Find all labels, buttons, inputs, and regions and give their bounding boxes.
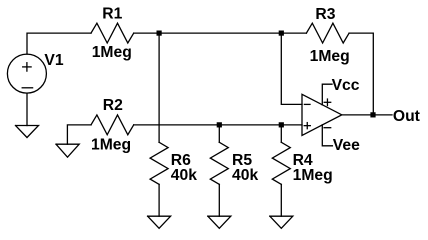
svg-text:1Meg: 1Meg xyxy=(310,48,350,65)
svg-text:40k: 40k xyxy=(171,167,197,184)
svg-text:V1: V1 xyxy=(44,52,63,69)
svg-text:R1: R1 xyxy=(102,6,122,23)
svg-text:R3: R3 xyxy=(315,6,335,23)
svg-text:Vee: Vee xyxy=(333,137,360,154)
svg-text:1Meg: 1Meg xyxy=(92,44,132,61)
svg-text:40k: 40k xyxy=(232,167,258,184)
svg-text:R2: R2 xyxy=(103,97,123,114)
svg-text:1Meg: 1Meg xyxy=(91,136,131,153)
svg-text:1Meg: 1Meg xyxy=(293,167,333,184)
svg-text:Out: Out xyxy=(393,108,421,125)
svg-text:Vcc: Vcc xyxy=(332,77,360,94)
